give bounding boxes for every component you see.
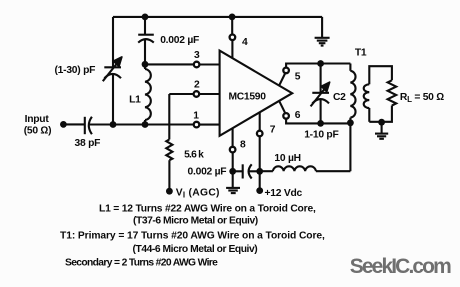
node junction pin7 bypass — [256, 168, 263, 175]
svg-text:L1: L1 — [129, 95, 141, 106]
svg-text:T1: T1 — [355, 48, 367, 59]
wire variable-cap branch upper — [112, 17, 114, 67]
svg-text:Secondary = 2 Turns #20 AWG Wi: Secondary = 2 Turns #20 AWG Wire — [65, 258, 218, 269]
svg-text:5: 5 — [295, 72, 301, 83]
wire RL bottom / secondary bottom — [369, 106, 392, 122]
wire pin 4 upper — [231, 17, 233, 34]
wire pin 7 upper — [259, 112, 261, 130]
wire secondary ground stub — [381, 122, 383, 133]
wire pin 3 stub — [200, 63, 220, 65]
wire input line to pin 1 — [90, 123, 194, 125]
wire resistor to V1 — [168, 160, 170, 191]
wire 10uH riser — [349, 123, 351, 171]
terminal +12 Vdc dot — [256, 187, 263, 194]
svg-text:(50 Ω): (50 Ω) — [24, 126, 52, 137]
wire top rail — [113, 16, 322, 18]
svg-text:8: 8 — [240, 139, 246, 150]
node junction secondary ground — [378, 119, 385, 126]
svg-text:0.002 µF: 0.002 µF — [160, 35, 199, 46]
svg-text:4: 4 — [242, 37, 248, 48]
wire pin 8 down to ground — [232, 153, 234, 188]
svg-text:+12 Vdc: +12 Vdc — [265, 188, 303, 199]
capacitor 0.002 uF (bypass) — [233, 164, 260, 178]
pin 8 circle — [230, 147, 236, 153]
svg-text:38 pF: 38 pF — [75, 138, 101, 149]
transformer T1 primary winding — [350, 64, 355, 123]
ground T1 secondary — [375, 134, 388, 139]
pin 1 circle — [194, 122, 200, 128]
svg-text:1: 1 — [193, 110, 199, 121]
resistor 5.6k — [166, 139, 172, 160]
wire pin 6 stub to slope — [279, 101, 285, 113]
node junction var-cap bottom — [110, 121, 117, 128]
capacitor 38 pF — [85, 117, 92, 134]
node junction T1 primary bottom — [347, 119, 354, 126]
node junction C2 bottom — [317, 120, 324, 127]
svg-text:C2: C2 — [333, 92, 346, 103]
wire pin 3 — [145, 63, 193, 65]
pin 3 circle — [194, 62, 200, 68]
svg-text:RL = 50 Ω: RL = 50 Ω — [400, 92, 444, 104]
capacitor C2 variable — [311, 64, 330, 124]
resistor RL — [388, 80, 397, 105]
wire pin 1 stub — [200, 124, 220, 126]
terminal V1 AGC dot — [166, 188, 173, 195]
node junction top rail / pin4 — [229, 14, 236, 21]
node junction L1 bottom — [142, 121, 149, 128]
capacitor 0.002 uF (top) — [138, 17, 154, 64]
wire ground branch top — [321, 17, 323, 38]
input terminal dot — [60, 121, 67, 128]
wire pin 7 down to +12 — [259, 137, 261, 191]
pin 4 circle — [230, 35, 236, 41]
wire pin 2 stub — [200, 93, 220, 95]
inductor 10 uH — [260, 166, 351, 171]
svg-text:2: 2 — [194, 80, 200, 91]
op-amp U1 MC1590 triangle — [220, 51, 293, 136]
wire pin 5 stub to slope — [279, 74, 285, 86]
pin 6 circle — [283, 113, 289, 119]
pin 5 circle — [283, 68, 289, 74]
node junction L1 top — [142, 61, 149, 68]
svg-text:1-10 pF: 1-10 pF — [304, 129, 338, 140]
svg-text:MC1590: MC1590 — [229, 92, 267, 103]
svg-text:(1-30) pF: (1-30) pF — [55, 65, 96, 76]
svg-text:3: 3 — [194, 50, 200, 61]
wire pin 8 upper — [232, 128, 234, 146]
node junction pin8 bypass — [229, 168, 236, 175]
svg-text:Input: Input — [25, 114, 50, 125]
svg-text:(T37-6 Micro Metal or Equiv): (T37-6 Micro Metal or Equiv) — [133, 216, 258, 227]
pin 2 circle — [194, 91, 200, 97]
ground pin 8 — [226, 188, 240, 193]
ground top — [315, 38, 330, 46]
caption notes — [60, 204, 325, 269]
wire pin 4 lower — [231, 41, 233, 59]
svg-text:(T44-6 Micro Metal or Equiv): (T44-6 Micro Metal or Equiv) — [133, 244, 258, 255]
svg-text:5.6 k: 5.6 k — [184, 150, 204, 161]
inductor L1 — [145, 64, 151, 124]
wire pin 5 up and tank top — [286, 64, 350, 68]
wire pin 2 horizontal — [169, 93, 193, 95]
capacitor (1-30) pF variable — [103, 57, 122, 81]
svg-text:T1: Primary = 17 Turns #20 AW: T1: Primary = 17 Turns #20 AWG Wire on a… — [60, 231, 325, 242]
node junction C2 top — [317, 60, 324, 67]
transformer T1 secondary winding — [364, 66, 392, 122]
svg-text:7: 7 — [270, 124, 276, 135]
wire input to 38pF — [63, 123, 84, 125]
svg-text:0.002 µF: 0.002 µF — [188, 167, 227, 178]
wire variable-cap branch lower — [112, 74, 114, 124]
svg-text:L1 = 12 Turns #22 AWG Wire on: L1 = 12 Turns #22 AWG Wire on a Toroid C… — [99, 204, 316, 215]
svg-text:6: 6 — [295, 110, 301, 121]
wire pin 2 down to resistor — [168, 94, 170, 139]
wire pin 6 down and tank bottom — [286, 119, 350, 123]
svg-text:10 µH: 10 µH — [274, 153, 300, 164]
svg-text:SeekIC.com: SeekIC.com — [350, 255, 451, 278]
node junction top rail / 0.002uF — [142, 14, 149, 21]
svg-text:VI (AGC): VI (AGC) — [176, 187, 220, 199]
pin 7 circle — [257, 131, 263, 137]
